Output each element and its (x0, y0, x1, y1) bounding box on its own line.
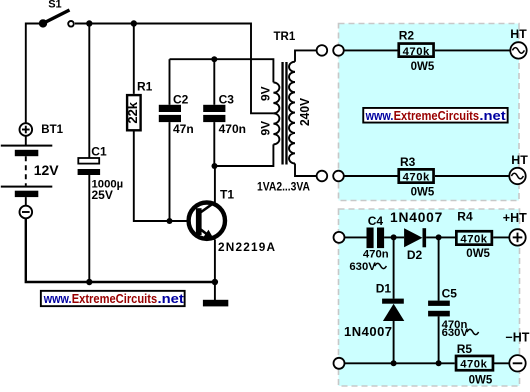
svg-text:630V: 630V (442, 327, 469, 339)
core (281, 62, 283, 165)
svg-text:R3: R3 (400, 155, 416, 169)
terminal circle pair row2 (317, 171, 344, 182)
junction D2/C5/R4 (436, 234, 442, 240)
switch S1 (39, 0, 74, 28)
junction top rail / R1 (131, 20, 137, 26)
svg-text:630V: 630V (349, 261, 376, 273)
svg-text:1N4007: 1N4007 (344, 324, 393, 339)
svg-text:+HT: +HT (503, 211, 527, 225)
wire D1 top lead (393, 237, 395, 298)
transformer TR1 (257, 31, 312, 193)
resistor R2 470k (399, 29, 435, 74)
svg-text:470k: 470k (460, 234, 487, 246)
svg-text:C2: C2 (173, 92, 189, 106)
dashed enclosure box 1 (HT AC outputs) (339, 24, 520, 201)
capacitor C1 (78, 145, 124, 203)
wire C2 top lead (169, 59, 171, 105)
transistor T1 2N2219A (189, 187, 277, 254)
svg-text:1N4007: 1N4007 (390, 210, 443, 225)
svg-text:ExtremeCircuits: ExtremeCircuits (394, 108, 480, 123)
wire emitter lead (214, 240, 216, 283)
wire C1 branch bottom (88, 175, 90, 282)
capacitor C3 470n (203, 92, 246, 136)
wire R1 branch top (133, 24, 135, 94)
capacitor C4 470n 630V (349, 214, 388, 273)
wire C5 bottom lead (438, 316, 440, 363)
svg-text:240V: 240V (297, 98, 312, 126)
svg-text:www.: www. (43, 291, 72, 306)
svg-text:R5: R5 (457, 342, 473, 356)
junction top rail / C1 (86, 20, 92, 26)
wire battery- to bottom rail (26, 218, 215, 282)
input terminal box2 row2 (334, 358, 345, 369)
junction collector node (212, 163, 218, 169)
ground (203, 282, 228, 306)
svg-text:0W5: 0W5 (469, 374, 493, 386)
svg-text:22k: 22k (125, 101, 140, 123)
resistor R5 470k (456, 342, 493, 386)
svg-text:T1: T1 (220, 187, 234, 201)
junction bottom row / C5 (436, 360, 442, 366)
resistor R3 470k (399, 155, 435, 198)
svg-text:C1: C1 (91, 145, 107, 159)
wire R3 to HT (435, 175, 509, 177)
-HT output terminal (505, 331, 529, 372)
resistor R1 22k (125, 80, 153, 131)
capacitor C2 47n (159, 92, 194, 136)
svg-text:HT: HT (511, 153, 528, 167)
svg-text:.net: .net (479, 108, 506, 123)
diode D2 1N4007 (390, 210, 443, 262)
svg-text:C3: C3 (219, 92, 235, 106)
svg-text:470k: 470k (403, 46, 430, 58)
svg-text:.net: .net (158, 291, 185, 306)
wire D2 to R4 (426, 236, 455, 238)
primary winding 9V bottom (273, 113, 279, 144)
svg-text:D2: D2 (407, 248, 423, 262)
wire terminal to C4 (345, 236, 367, 238)
wire secondary top to terminals (295, 50, 317, 61)
junction base wire / C2 (167, 218, 173, 224)
svg-text:ExtremeCircuits: ExtremeCircuits (72, 291, 158, 306)
junction bottom rail / C1 (86, 279, 92, 285)
svg-text:470n: 470n (363, 248, 389, 260)
svg-text:C4: C4 (368, 214, 384, 228)
svg-text:470n: 470n (219, 122, 246, 136)
input terminal box2 row1 (334, 232, 345, 243)
svg-text:TR1: TR1 (274, 31, 296, 43)
www.ExtremeCircuits.net box (bottom left) (41, 291, 185, 306)
svg-text:S1: S1 (48, 0, 61, 10)
wire row1 to R2 (344, 49, 398, 51)
svg-text:9V: 9V (258, 121, 272, 136)
junction top wire / C3 (211, 56, 217, 62)
wire R1 bottom to base (134, 132, 196, 222)
svg-text:47n: 47n (173, 122, 194, 136)
svg-text:D1: D1 (376, 282, 392, 296)
junction bottom row / D1 (391, 360, 397, 366)
svg-text:9V: 9V (258, 86, 272, 101)
terminal circle pair row1 (317, 45, 344, 56)
wire R4 to +HT (493, 236, 509, 238)
svg-text:−HT: −HT (505, 331, 529, 345)
secondary winding 240V (289, 62, 295, 164)
+HT output terminal (503, 211, 527, 246)
svg-text:BT1: BT1 (41, 124, 63, 136)
diode D1 1N4007 (344, 282, 404, 339)
wire collector lead (214, 166, 216, 203)
www.ExtremeCircuits.net box (cyan panel) (363, 108, 507, 123)
wire bottom row (345, 362, 455, 364)
junction C4/D2/D1 (391, 234, 397, 240)
wire C4 to D2 (384, 236, 404, 238)
svg-text:0W5: 0W5 (411, 186, 435, 198)
wire C2 bottom lead (169, 122, 171, 221)
resistor R4 470k (456, 210, 492, 261)
junction bottom rail / emitter (212, 279, 218, 285)
wire R5 to -HT (493, 362, 509, 364)
svg-text:R4: R4 (457, 210, 473, 224)
svg-text:470k: 470k (403, 172, 430, 184)
wire C3 top lead (213, 59, 215, 105)
battery BT1 (1, 123, 64, 218)
wire R2 to HT (435, 49, 510, 51)
svg-text:2N2219A: 2N2219A (218, 240, 276, 254)
svg-text:C5: C5 (442, 287, 458, 301)
svg-text:HT: HT (510, 27, 527, 41)
primary winding 9V top (273, 82, 279, 113)
svg-text:R2: R2 (399, 29, 415, 43)
wire C3 bottom lead (213, 122, 215, 166)
wire top rail switch to transformer center tap (75, 24, 273, 114)
wire C2/C3 top to transformer primary top (170, 59, 274, 82)
HT output terminal row1 (510, 27, 527, 58)
capacitor C5 470n 630V (428, 287, 478, 339)
svg-text:470k: 470k (460, 359, 487, 371)
svg-text:1VA2...3VA: 1VA2...3VA (257, 179, 310, 193)
HT output terminal row2 (509, 153, 528, 184)
svg-text:12V: 12V (34, 162, 60, 178)
wire row2 to R3 (344, 175, 398, 177)
wire C1 branch top (88, 24, 90, 159)
wire collector node to primary bottom (215, 144, 274, 166)
svg-text:R1: R1 (137, 80, 153, 94)
svg-text:25V: 25V (92, 188, 113, 202)
wire secondary bottom to terminals (295, 164, 317, 177)
svg-text:0W5: 0W5 (411, 61, 435, 73)
svg-text:www.: www. (365, 108, 394, 123)
dashed enclosure box 2 (doubler +HT/-HT) (339, 209, 520, 386)
wire C5 top lead (438, 237, 440, 300)
wire battery+ to switch (26, 24, 43, 124)
wire D1 bottom lead (393, 321, 395, 363)
svg-text:0W5: 0W5 (466, 248, 490, 260)
